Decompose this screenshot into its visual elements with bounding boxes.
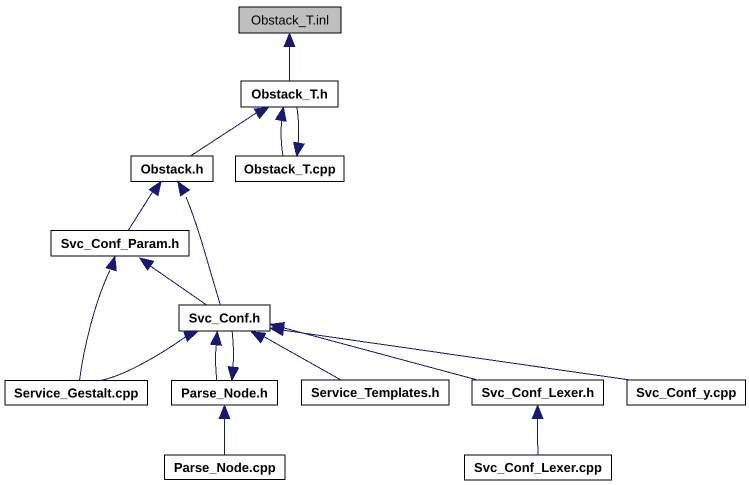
edge Service_Gestalt.cpp to Svc_Conf.h: [101, 331, 198, 380]
node Svc_Conf.h: [179, 305, 270, 331]
svg-text:Svc_Conf_Lexer.h: Svc_Conf_Lexer.h: [481, 385, 594, 400]
node Obstack_T.inl: [239, 7, 341, 33]
edge Svc_Conf_Lexer.h to Svc_Conf.h: [270, 323, 477, 380]
node Svc_Conf_Param.h: [51, 231, 189, 257]
node Svc_Conf_Lexer.cpp: [465, 455, 612, 480]
svg-text:Parse_Node.h: Parse_Node.h: [181, 385, 268, 400]
edge Svc_Conf.h to Svc_Conf_Param.h: [140, 258, 207, 305]
svg-text:Svc_Conf_Param.h: Svc_Conf_Param.h: [61, 236, 180, 251]
svg-text:Service_Gestalt.cpp: Service_Gestalt.cpp: [14, 385, 138, 400]
edge Parse_Node.cpp to Parse_Node.h: [219, 405, 230, 455]
svg-text:Obstack_T.inl: Obstack_T.inl: [251, 13, 329, 28]
svg-text:Obstack_T.cpp: Obstack_T.cpp: [244, 161, 336, 176]
node Obstack_T.h: [241, 81, 338, 107]
svg-text:Parse_Node.cpp: Parse_Node.cpp: [174, 460, 276, 475]
svg-text:Svc_Conf_Lexer.cpp: Svc_Conf_Lexer.cpp: [474, 460, 602, 475]
edge Svc_Conf_Lexer.cpp to Svc_Conf_Lexer.h: [532, 405, 543, 455]
svg-text:Svc_Conf.h: Svc_Conf.h: [189, 311, 261, 326]
edge Svc_Conf_Param.h to Obstack.h: [128, 182, 161, 231]
svg-text:Obstack_T.h: Obstack_T.h: [251, 87, 328, 102]
svg-text:Service_Templates.h: Service_Templates.h: [311, 385, 439, 400]
edge Obstack_T.cpp to Obstack_T.h: [276, 107, 286, 156]
node Obstack.h: [131, 156, 213, 182]
node Svc_Conf_y.cpp: [627, 380, 746, 405]
node Parse_Node.cpp: [165, 455, 286, 480]
svg-text:Svc_Conf_y.cpp: Svc_Conf_y.cpp: [636, 385, 736, 400]
node Service_Templates.h: [302, 380, 450, 405]
node Parse_Node.h: [172, 381, 278, 406]
edge Obstack_T.h to Obstack_T.inl: [284, 33, 295, 81]
edge Svc_Conf.h to Parse_Node.h: [228, 331, 239, 380]
svg-text:Obstack.h: Obstack.h: [141, 161, 204, 176]
edge Svc_Conf_y.cpp to Svc_Conf.h: [270, 325, 630, 380]
node Obstack_T.cpp: [236, 156, 345, 182]
edge Obstack.h to Obstack_T.h: [190, 107, 269, 156]
edge Obstack_T.h to Obstack_T.cpp: [294, 107, 304, 156]
node Service_Gestalt.cpp: [5, 381, 148, 406]
edge Parse_Node.h to Svc_Conf.h: [211, 332, 222, 381]
edge Service_Templates.h to Svc_Conf.h: [252, 332, 342, 380]
edge Service_Gestalt.cpp to Svc_Conf_Param.h: [80, 257, 117, 381]
node Svc_Conf_Lexer.h: [472, 380, 604, 405]
edge Svc_Conf.h to Obstack.h: [178, 182, 221, 305]
